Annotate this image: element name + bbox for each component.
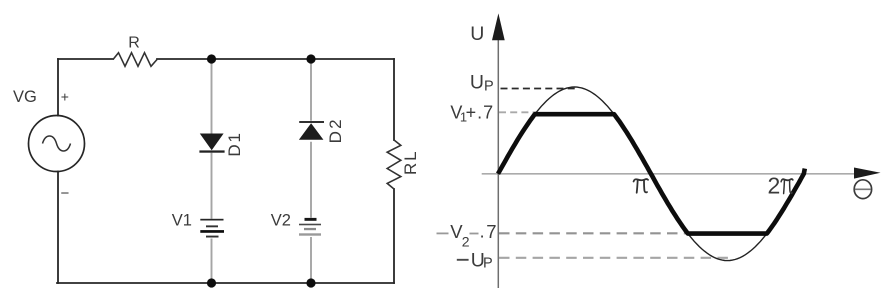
svg-text:V1: V1 bbox=[172, 211, 192, 229]
svg-text:2: 2 bbox=[462, 234, 470, 250]
svg-text:U: U bbox=[470, 23, 484, 45]
svg-text:VG: VG bbox=[13, 88, 37, 106]
svg-text:7: 7 bbox=[486, 221, 496, 242]
svg-text:RL: RL bbox=[401, 150, 420, 175]
svg-text:UP: UP bbox=[470, 71, 494, 94]
svg-text:−: − bbox=[61, 185, 70, 202]
svg-text:V2: V2 bbox=[271, 211, 291, 229]
svg-text:D2: D2 bbox=[326, 117, 345, 143]
svg-text:+: + bbox=[61, 88, 69, 104]
svg-text:V1+.7: V1+.7 bbox=[450, 102, 494, 124]
svg-text:2: 2 bbox=[768, 173, 781, 199]
svg-text:P: P bbox=[483, 256, 493, 272]
svg-text:.: . bbox=[480, 221, 485, 242]
svg-text:D1: D1 bbox=[225, 131, 244, 156]
svg-text:R: R bbox=[128, 35, 140, 52]
